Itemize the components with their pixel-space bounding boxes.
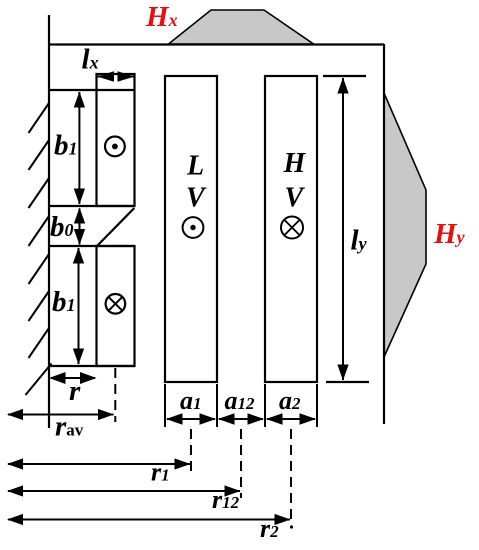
shelf line top [49,89,135,91]
dimension r12 [7,485,241,514]
dashed line r2 radius [290,429,292,524]
dimension ly top tick [323,75,366,77]
dimension r [49,372,97,407]
Hx field trapezoid [169,10,314,44]
step diagonal [97,208,135,247]
svg-text:H: H [283,148,307,179]
svg-text:V: V [285,183,306,214]
dimension ly bottom tick [326,381,369,383]
HV winding label [283,148,307,214]
dimension ly arrow [337,78,367,381]
dimension lx [82,44,135,82]
core edge vertical line [48,15,50,428]
label Hy [433,218,466,250]
dashed line r12 radius [240,429,242,498]
shelf line mid upper [49,205,135,207]
dashed line r1 radius [190,429,192,476]
right boundary line [383,44,385,424]
label Hx [145,1,178,33]
dimension b1 upper [54,92,85,205]
dimension r2 [7,514,293,543]
svg-text:L: L [186,151,204,182]
upper tapping coil rect [97,74,135,206]
current cross symbol HV [281,217,303,239]
dimension b1 lower [52,248,84,365]
dimension r1 [7,458,191,487]
dimension a12 [218,386,264,425]
extension line LV right [216,384,218,427]
dimension a2 [266,386,316,425]
lower tapping coil rect [97,246,135,366]
LV winding label [186,151,207,214]
dimension b0 [50,208,85,246]
extension line HV right [316,384,318,427]
current dot symbol upper coil [105,137,125,157]
extension line LV left [164,384,166,427]
HV winding rect [265,76,317,382]
dimension a1 [166,386,216,425]
top yoke line [48,43,384,45]
current cross symbol lower coil [106,294,126,314]
svg-text:r: r [69,375,81,407]
LV winding rect [165,76,217,382]
extension line HV left [264,384,266,427]
core hatching [26,103,52,395]
dashed line coil mean radius [114,368,116,422]
shelf line mid lower [49,245,135,247]
svg-text:V: V [186,183,207,214]
current dot symbol LV [183,217,204,238]
shelf line bottom [49,365,135,367]
dimension rav [7,409,114,443]
Hy field polygon [384,93,426,357]
